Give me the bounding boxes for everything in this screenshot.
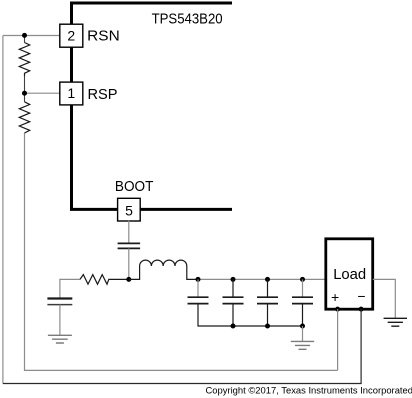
- resistor R1 (upper feedback divider): [19, 43, 29, 77]
- wire C1 to ground: [59, 305, 61, 336]
- capacitor C3 output: [232, 279, 234, 297]
- svg-text:RSP: RSP: [88, 86, 118, 103]
- ground symbol G2: [291, 341, 314, 349]
- junction dot bottom rail at C5 / ground: [300, 324, 305, 329]
- svg-text:−: −: [357, 288, 365, 304]
- svg-text:RSN: RSN: [87, 28, 120, 45]
- junction dot bottom rail at C3: [231, 324, 236, 329]
- capacitor C5 output: [302, 279, 304, 297]
- junction dot Load - pin: [359, 307, 364, 312]
- wire Load right side to ground: [373, 279, 396, 318]
- junction dot RSN node: [22, 33, 27, 38]
- junction dot top rail at C3: [231, 277, 236, 282]
- wire left branch: resistor R3 left terminal to C_in: [60, 279, 80, 298]
- junction dot bottom rail at C4: [265, 324, 270, 329]
- svg-text:Load: Load: [333, 266, 366, 283]
- svg-text:Copyright ©2017, Texas Instrum: Copyright ©2017, Texas Instruments Incor…: [206, 386, 412, 397]
- IC U1 TPS543B20 outline top edge: [72, 2, 233, 5]
- IC U1 outline bottom edge: [70, 208, 232, 211]
- wire divider rail segment between R1 and R2: [24, 77, 26, 102]
- junction dot top rail at C4: [265, 277, 270, 282]
- capacitor C_boot bootstrap: [118, 243, 141, 248]
- inductor L1: [129, 260, 198, 279]
- capacitor C1 (left, to ground): [47, 297, 72, 299]
- pin 5 box: [118, 198, 141, 221]
- wire divider rail segment below R2 down and right to Load +: [25, 133, 338, 370]
- Load block: [326, 239, 373, 309]
- ground symbol G1: [48, 335, 72, 343]
- junction dot RSP node: [22, 91, 27, 96]
- pin 1 box: [60, 82, 83, 105]
- resistor R2 (lower feedback divider): [19, 102, 29, 133]
- ground symbol G3: [384, 318, 407, 326]
- wire Load - sense return to RSN rail: [3, 309, 361, 383]
- svg-text:2: 2: [67, 27, 75, 43]
- capacitor C2 output: [197, 279, 199, 297]
- wire bootstrap capacitor to SW node: [128, 248, 130, 279]
- junction dot top rail at C5: [300, 277, 305, 282]
- svg-text:+: +: [331, 289, 339, 305]
- wire divider rail segment above R1: [24, 35, 26, 42]
- svg-text:BOOT: BOOT: [115, 178, 153, 195]
- wire BOOT pin to bootstrap capacitor: [128, 221, 130, 243]
- wire Load + sense return to divider rail: [337, 309, 339, 370]
- wire output caps bottom rail: [198, 304, 303, 326]
- resistor R3 (series, horizontal): [80, 275, 129, 285]
- junction dot SW node: [126, 277, 131, 282]
- wire RSN net horizontal: [3, 35, 60, 37]
- wire bottom rail to ground: [302, 326, 304, 341]
- svg-text:1: 1: [67, 85, 75, 101]
- junction dot Load + pin: [335, 307, 340, 312]
- IC U1 outline left edge: [70, 2, 73, 210]
- capacitor C4 output: [267, 279, 269, 297]
- wire RSN left rail vertical: [2, 36, 4, 384]
- wire RSP net horizontal: [25, 92, 60, 94]
- svg-text:5: 5: [125, 202, 133, 218]
- junction dot VOUT node at L1 output / C2: [196, 277, 201, 282]
- pin 2 box: [60, 24, 83, 47]
- wire VOUT top rail: [198, 278, 326, 280]
- svg-text:TPS543B20: TPS543B20: [152, 10, 223, 27]
